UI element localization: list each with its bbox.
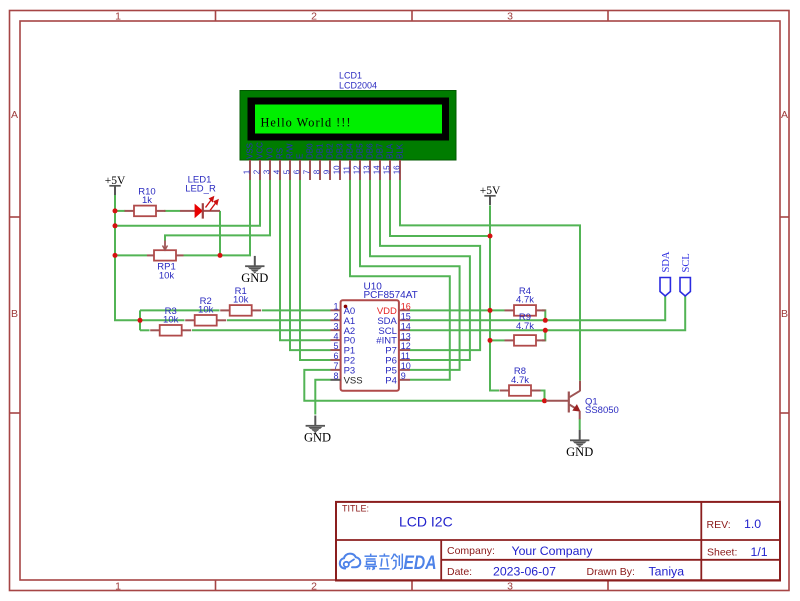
svg-text:4.7k: 4.7k: [516, 321, 534, 332]
U10 pin 13 #INT: [376, 331, 410, 346]
svg-text:13: 13: [401, 331, 411, 341]
resistor R2: [185, 296, 226, 326]
title block texts: [342, 504, 737, 579]
svg-text:2: 2: [311, 11, 317, 23]
svg-text:11: 11: [342, 165, 351, 174]
U10 pin 12 P7: [385, 341, 410, 356]
LCD1 pin 7 DB0: [302, 143, 314, 180]
svg-text:LCD2004: LCD2004: [339, 81, 377, 91]
svg-text:Date:: Date:: [447, 566, 472, 578]
LCD1 pin 4 RS: [272, 148, 284, 180]
junction R1R2R3 feed: [138, 318, 143, 323]
LCD1 pin 3 VO: [262, 147, 274, 180]
wire SCL net U10 to port: [410, 296, 685, 330]
LCD1 pin 2 VCC: [252, 142, 264, 180]
junction BLA/+5V: [488, 234, 493, 239]
junction +5V/VCC: [113, 223, 118, 228]
wire +5V to LCD VCC pin 2: [115, 180, 260, 226]
wire R10 to LED1 anode: [164, 210, 180, 212]
svg-text:4.7k: 4.7k: [516, 295, 534, 306]
svg-text:1: 1: [115, 581, 121, 593]
svg-text:DB7: DB7: [376, 143, 385, 159]
svg-text:10k: 10k: [198, 305, 214, 316]
wire feed to R1: [140, 309, 220, 311]
wire R3 to U10 A2: [192, 329, 331, 331]
svg-text:2: 2: [252, 169, 261, 174]
LCD1 pin 16 BLK: [392, 143, 404, 180]
svg-text:4: 4: [333, 331, 338, 341]
ground symbol (GND below U10): [304, 416, 331, 445]
svg-text:DB4: DB4: [346, 143, 355, 159]
junction LED cathode/GND net: [218, 253, 223, 258]
svg-text:LCD1: LCD1: [339, 71, 362, 81]
svg-text:8: 8: [333, 371, 338, 381]
svg-text:2: 2: [311, 581, 317, 593]
svg-text:Drawn By:: Drawn By:: [587, 566, 635, 578]
wire LCD DB4 to U10 P4: [350, 180, 450, 380]
svg-text:Taniya: Taniya: [649, 564, 685, 578]
wire LCD DB6 to U10 P6: [370, 180, 470, 360]
JLC EDA logo: [340, 554, 361, 569]
svg-text:6: 6: [333, 351, 338, 361]
port connector SCL: [680, 253, 692, 296]
svg-text:GND: GND: [304, 431, 331, 445]
wire R4 right to SDA net: [542, 310, 545, 320]
junction R4/SDA: [543, 318, 548, 323]
U10 pin 3 A2: [331, 321, 356, 336]
LCD1 pin 15 BLA: [382, 143, 394, 180]
U10 pin 8 VSS: [331, 371, 363, 386]
wire R8 right down to base net: [531, 391, 545, 401]
svg-text:13: 13: [362, 165, 371, 174]
port connector SDA: [660, 251, 672, 296]
U10 pin 10 P5: [385, 361, 410, 376]
svg-text:VCC: VCC: [256, 142, 265, 159]
svg-text:8: 8: [312, 169, 321, 174]
LCD1 pin 14 DB7: [372, 143, 384, 180]
svg-text:12: 12: [352, 165, 361, 174]
svg-text:1: 1: [242, 169, 251, 174]
svg-text:DB6: DB6: [366, 143, 375, 159]
svg-text:16: 16: [401, 302, 411, 312]
svg-text:A: A: [781, 109, 788, 121]
wire R2 to U10 A1: [227, 319, 331, 321]
svg-text:GND: GND: [241, 271, 268, 285]
wire +5V rail to R9: [490, 339, 505, 341]
LED D1 LED1: [180, 174, 220, 218]
svg-text:1: 1: [115, 11, 121, 23]
U10 pin 9 P4: [385, 371, 410, 386]
svg-text:E: E: [296, 154, 305, 159]
svg-text:TITLE:: TITLE:: [342, 504, 369, 514]
wire R9 right to SCL net: [542, 330, 545, 340]
svg-text:2: 2: [333, 311, 338, 321]
svg-text:DB5: DB5: [356, 143, 365, 159]
wire Q1 emitter to GND: [579, 419, 581, 430]
U10 pin 15 SDA: [377, 311, 410, 326]
junction R8/base: [542, 398, 547, 403]
svg-text:DB1: DB1: [316, 143, 325, 159]
U10 pin 7 P3: [331, 361, 356, 376]
wire LCD BLA to +5V rail: [390, 180, 490, 236]
svg-text:1k: 1k: [142, 195, 152, 206]
svg-text:3: 3: [333, 321, 338, 331]
resistor R1: [220, 286, 261, 316]
svg-text:EDA: EDA: [404, 552, 437, 574]
wire R1-R3 feed vertical: [139, 310, 141, 330]
wire LCD E to U10 P2: [300, 180, 331, 360]
wire LCD R/W to U10 P1: [290, 180, 331, 350]
svg-text:VSS: VSS: [344, 375, 363, 386]
U10 pin 11 P6: [385, 351, 410, 366]
LCD1 pin 6 E: [292, 154, 304, 180]
U10 pin 1 A0: [331, 302, 356, 317]
power symbol +5V (left rail): [105, 175, 126, 195]
transistor Q1 SS8050: [546, 381, 581, 419]
svg-text:GND: GND: [566, 445, 593, 459]
svg-text:7: 7: [333, 361, 338, 371]
wire RP1 wiper to LCD VO pin 3: [165, 180, 270, 241]
svg-text:12: 12: [401, 341, 411, 351]
LCD1 pin 8 DB1: [312, 143, 324, 180]
power symbol +5V (right rail): [480, 185, 501, 205]
svg-text:DB2: DB2: [326, 143, 335, 159]
U10 pin 5 P1: [331, 341, 356, 356]
svg-text:9: 9: [401, 371, 406, 381]
junction +5V/R10: [113, 208, 118, 213]
U10 pin 2 A1: [331, 311, 356, 326]
wire LCD BLK to Q1 collector: [400, 180, 580, 381]
op-amp/IC U10 PCF8574AT body: [341, 282, 418, 391]
svg-text:VO: VO: [266, 147, 275, 159]
wire RP1 right / GND net to LCD VSS pin 1: [184, 180, 251, 255]
resistor R9: [505, 312, 546, 346]
wire +5V to R10: [115, 210, 125, 212]
U10 pin 4 P0: [331, 331, 356, 346]
ground symbol (GND near LCD VSS): [241, 256, 268, 285]
svg-text:SCL: SCL: [681, 253, 692, 272]
junction +5V/RP1: [113, 253, 118, 258]
wire U10 VDD to R4: [410, 309, 505, 311]
LCD1 pin 10 DB3: [332, 143, 344, 180]
junction R9/+5V: [488, 338, 493, 343]
svg-text:R/W: R/W: [286, 143, 295, 159]
svg-text:5: 5: [282, 169, 291, 174]
svg-text:16: 16: [392, 165, 401, 174]
svg-text:SS8050: SS8050: [585, 405, 619, 416]
potentiometer RP1: [147, 241, 184, 282]
svg-text:RS: RS: [276, 148, 285, 159]
svg-text:11: 11: [401, 351, 410, 361]
svg-text:2023-06-07: 2023-06-07: [493, 565, 556, 579]
svg-text:9: 9: [322, 169, 331, 174]
wire feed to R3: [140, 329, 150, 331]
LCD1 pin 9 DB2: [322, 143, 334, 180]
svg-text:4.7k: 4.7k: [511, 375, 529, 386]
svg-text:Your Company: Your Company: [512, 544, 594, 558]
resistor R8: [500, 366, 541, 396]
svg-text:DB3: DB3: [336, 143, 345, 159]
svg-text:Sheet:: Sheet:: [707, 546, 737, 558]
svg-text:3: 3: [262, 169, 271, 174]
svg-text:LED_R: LED_R: [185, 184, 216, 195]
svg-text:LCD I2C: LCD I2C: [399, 514, 453, 530]
svg-text:P4: P4: [385, 375, 397, 386]
svg-text:10k: 10k: [233, 295, 249, 306]
junction R9/SCL: [543, 328, 548, 333]
wire LED1 cathode down to GND net: [219, 211, 221, 256]
svg-text:Hello World !!!: Hello World !!!: [261, 116, 352, 130]
svg-text:1/1: 1/1: [751, 545, 768, 559]
resistor R4: [505, 286, 546, 316]
LCD1 pin 11 DB4: [342, 143, 354, 180]
svg-text:PCF8574AT: PCF8574AT: [364, 290, 418, 301]
wire LCD DB5 to U10 P5: [360, 180, 460, 370]
wire R1 to U10 A0: [262, 309, 331, 311]
wire U10 VSS to GND: [315, 380, 330, 415]
svg-text:6: 6: [292, 169, 301, 174]
title block: [336, 502, 780, 581]
LCD display LCD1 body: [240, 91, 456, 161]
svg-text:REV:: REV:: [707, 519, 731, 531]
svg-text:3: 3: [507, 581, 513, 593]
svg-text:SDA: SDA: [661, 251, 672, 272]
svg-text:10: 10: [401, 361, 411, 371]
svg-text:1.0: 1.0: [744, 517, 761, 531]
wire LCD DB7 to U10 P7: [380, 180, 480, 350]
svg-text:10k: 10k: [159, 271, 175, 282]
svg-text:B: B: [781, 308, 788, 320]
wire +5V right rail down to R8: [490, 205, 499, 390]
U10 pin 14 SCL: [378, 321, 410, 336]
wire LCD RS to U10 P0: [280, 180, 331, 340]
LCD1 pin 1 VSS: [242, 143, 254, 180]
svg-text:BLA: BLA: [386, 143, 395, 159]
wire +5V rail to RP1 left: [115, 254, 147, 256]
svg-text:A: A: [11, 109, 18, 121]
junction VDD/+5V: [488, 308, 493, 313]
svg-text:5: 5: [333, 341, 338, 351]
LCD1 pin 12 DB5: [352, 143, 364, 180]
svg-text:14: 14: [401, 321, 411, 331]
svg-text:B: B: [11, 308, 18, 320]
LCD1 pin 13 DB6: [362, 143, 374, 180]
wire U10 P3 to R8/Q1 base: [304, 370, 544, 401]
svg-text:DB0: DB0: [306, 143, 315, 159]
ground symbol (GND below Q1): [566, 430, 593, 459]
svg-text:14: 14: [372, 165, 381, 174]
wire +5V left rail down to R2 row: [115, 195, 185, 320]
svg-text:VSS: VSS: [246, 143, 255, 159]
LCD1 pin 5 R/W: [282, 143, 294, 180]
wire SDA net U10 to port: [410, 296, 665, 320]
svg-text:15: 15: [382, 165, 391, 174]
svg-text:BLK: BLK: [396, 143, 405, 159]
svg-text:15: 15: [401, 311, 411, 321]
svg-text:Company:: Company:: [447, 545, 495, 557]
svg-text:10k: 10k: [163, 315, 179, 326]
svg-text:7: 7: [302, 169, 311, 174]
resistor R3: [150, 306, 191, 336]
U10 pin 6 P2: [331, 351, 356, 366]
svg-text:1: 1: [333, 302, 338, 312]
svg-text:10: 10: [332, 165, 341, 174]
U10 pin 16 VDD: [377, 302, 411, 317]
svg-text:4: 4: [272, 169, 281, 174]
svg-text:3: 3: [507, 11, 513, 23]
resistor R10: [125, 186, 166, 216]
